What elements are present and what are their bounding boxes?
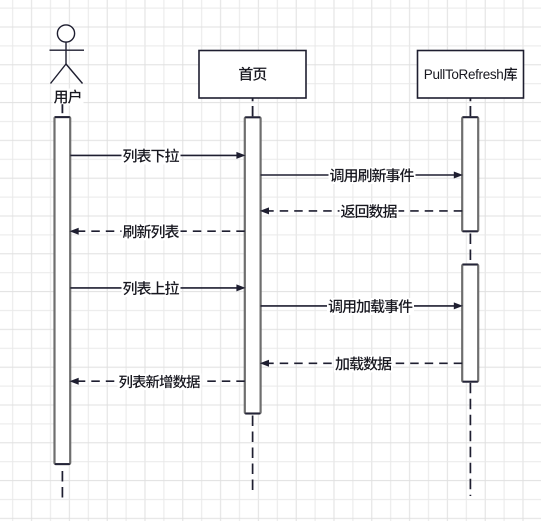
message 返回数据 line: [260, 207, 462, 214]
object box 首页 label: [237, 66, 268, 83]
message 列表上拉 line: [70, 284, 245, 291]
lifeline 首页 bottom dashes: [252, 416, 254, 492]
lifeline 用户 top dash: [61, 104, 63, 113]
message 列表上拉 label: [122, 280, 181, 297]
message 列表下拉 line: [70, 152, 245, 159]
activation bar PullToRefresh库 lower: [462, 265, 478, 382]
activation bar 首页: [245, 117, 261, 413]
object box 首页: [199, 51, 306, 99]
message 调用刷新事件 label: [329, 167, 416, 184]
lifeline 用户 bottom dashes: [61, 471, 63, 498]
message 列表下拉 label: [122, 148, 181, 165]
activation bar PullToRefresh库 upper: [462, 117, 478, 231]
activation bar 用户: [55, 117, 71, 464]
actor 用户 label: [53, 89, 84, 106]
lifeline PullToRefresh库 connector dashes: [469, 98, 471, 117]
message 调用刷新事件 line: [261, 172, 463, 179]
message 列表新增数据 label: [118, 374, 202, 391]
message 刷新列表 line: [70, 228, 245, 235]
lifeline PullToRefresh库 bottom dashes: [469, 383, 471, 496]
actor 用户 figure: [50, 25, 85, 84]
svg-text:PullToRefresh: PullToRefresh: [424, 67, 504, 82]
message 返回数据 label: [340, 203, 399, 220]
object box PullToRefresh库 label: [424, 67, 517, 82]
object box PullToRefresh库: [418, 51, 524, 99]
message 调用加载事件 label: [327, 298, 414, 315]
message 列表新增数据 line: [70, 378, 245, 385]
lifeline 首页 connector dashes: [252, 98, 254, 117]
message 刷新列表 label: [122, 223, 181, 240]
message 加载数据 label: [334, 355, 393, 372]
message 加载数据 line: [260, 360, 462, 367]
lifeline PullToRefresh库 middle dashes: [469, 234, 471, 264]
message 调用加载事件 line: [261, 302, 463, 309]
